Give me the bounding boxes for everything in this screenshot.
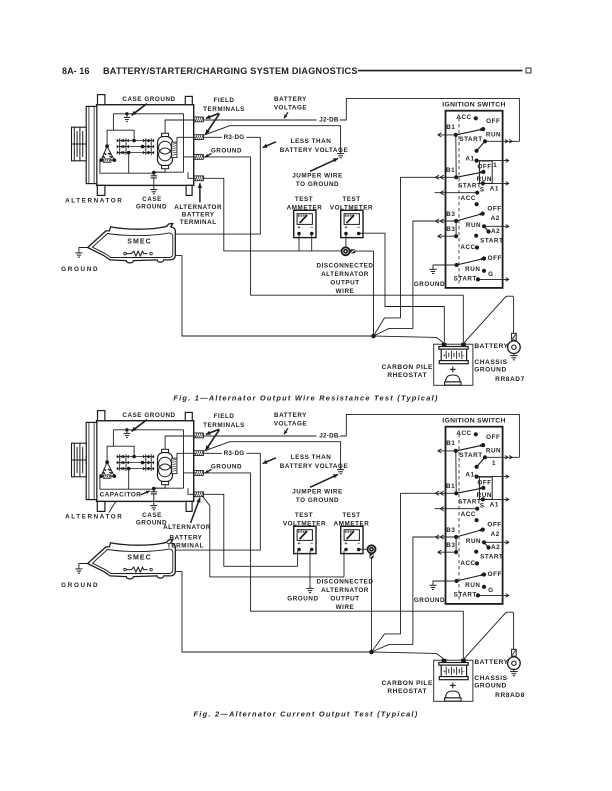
svg-text:TERMINALS: TERMINALS (203, 106, 245, 113)
chassis ground connector and eyelet (512, 333, 517, 340)
wire battery stud internal stub (188, 488, 196, 494)
alternator mounting tab bottom-left (97, 185, 105, 195)
svg-text:TEST: TEST (342, 512, 360, 519)
chassis ground symbol (513, 670, 515, 672)
test voltmeter M1 (294, 526, 316, 553)
svg-text:TEST: TEST (295, 512, 313, 519)
svg-text:BATTERY VOLTAGE: BATTERY VOLTAGE (280, 147, 348, 154)
jumper ground symbol (337, 153, 344, 155)
svg-text:TERMINALS: TERMINALS (203, 422, 245, 429)
svg-text:GROUND: GROUND (414, 597, 445, 604)
svg-text:R3-DG: R3-DG (224, 450, 245, 457)
wire S4 pivot to ground (433, 265, 457, 269)
wire voltmeter - to ground (309, 551, 311, 588)
rotor bottom brush tab (162, 482, 169, 485)
field terminal F2 connector (194, 135, 204, 140)
svg-text:Fig. 2—Alternator Current Outp: Fig. 2—Alternator Current Output Test (T… (194, 710, 419, 719)
delta terminal block (103, 159, 111, 162)
rotor field winding (158, 137, 173, 166)
capacitor C1 (153, 489, 155, 492)
rotor top brush tab (162, 449, 169, 452)
svg-text:FIELD: FIELD (214, 413, 235, 420)
svg-text:RR8AD7: RR8AD7 (495, 376, 525, 383)
svg-text:ACC: ACC (456, 114, 471, 121)
svg-text:BATTERY: BATTERY (170, 535, 203, 542)
svg-text:ALTERNATOR: ALTERNATOR (321, 271, 369, 278)
delta terminal block (103, 475, 111, 478)
ignition switch dashed section divider (458, 434, 460, 602)
battery BT1 left post (+) (442, 659, 447, 663)
svg-text:−: − (357, 541, 360, 547)
S1 B1 stub arrow left (438, 450, 456, 452)
svg-text:CHASSIS: CHASSIS (474, 675, 507, 682)
svg-text:START: START (480, 554, 503, 561)
svg-text:TERMINAL: TERMINAL (167, 543, 204, 550)
S3 contact A2 (486, 545, 490, 549)
rectifier diode bridge rails (119, 454, 121, 471)
label ALTERNATOR pointer arrow (109, 502, 116, 513)
alternator pulley (72, 127, 87, 161)
svg-text:A2: A2 (491, 215, 500, 222)
S1 blade B1-OFF (456, 129, 483, 135)
svg-text:RHEOSTAT: RHEOSTAT (387, 688, 427, 695)
wire B3 feed to junction (374, 221, 457, 336)
wire alternator battery terminal to voltmeter + (203, 494, 297, 566)
test ammeter M2 (341, 526, 363, 553)
alternator outer case (97, 105, 194, 186)
svg-text:B3: B3 (446, 226, 455, 233)
svg-text:8A- 16: 8A- 16 (62, 66, 89, 76)
svg-text:−: − (310, 541, 313, 547)
svg-text:CASE: CASE (142, 196, 162, 203)
svg-text:TEST: TEST (295, 196, 313, 203)
chassis ground connector and eyelet (512, 649, 517, 656)
battery BT1 top plate (439, 663, 468, 666)
wire internal top rail to case ground (113, 429, 183, 431)
ignition switch ground symbol (430, 584, 437, 586)
wire top rail left drop (113, 430, 134, 457)
stator delta winding (101, 462, 114, 476)
svg-text:OUTPUT: OUTPUT (330, 280, 359, 287)
SMEC internal resistor (125, 567, 148, 572)
svg-text:S: S (480, 186, 485, 193)
svg-text:RUN: RUN (465, 582, 480, 589)
ignition switch box (446, 427, 503, 604)
S3 blade RUN-A2 (484, 226, 489, 231)
chassis ground symbol (513, 354, 515, 356)
S3 blade B3-OFF (456, 214, 483, 221)
S4 pivot contact with blade to OFF (455, 263, 459, 267)
battery BT1 body with cells (441, 665, 466, 677)
battery terminal connector (194, 176, 204, 181)
alternator mounting tab top-right (185, 96, 192, 104)
svg-text:−: − (357, 225, 360, 231)
svg-text:TO GROUND: TO GROUND (296, 181, 339, 188)
junction node (371, 334, 376, 339)
wire jumper from field terminal F2 to ground (204, 126, 341, 154)
S1 contact START (475, 149, 479, 153)
disconnected alternator output wire connector (368, 545, 376, 553)
wire B1 link S1-S2 (455, 135, 457, 177)
wire jumper from field terminal F2 to ground (204, 442, 341, 470)
svg-text:A1: A1 (490, 502, 499, 509)
header end square (526, 68, 531, 73)
svg-text:LESS THAN: LESS THAN (291, 454, 332, 461)
wire B3 feed to junction (372, 537, 457, 652)
ignition switch ground symbol (430, 268, 437, 270)
svg-text:+: + (443, 353, 446, 358)
svg-text:B1: B1 (446, 483, 455, 490)
svg-text:START: START (454, 591, 477, 598)
battery BT1 bottom plate (439, 677, 468, 680)
field terminal F1 connector (194, 433, 204, 438)
jumper ground symbol (337, 469, 344, 471)
case ground dot (125, 112, 128, 115)
svg-text:RUN: RUN (486, 131, 501, 138)
svg-text:A1: A1 (465, 156, 474, 163)
case ground symbol top (126, 430, 128, 434)
rotor field winding (158, 453, 173, 482)
svg-text:−: − (462, 353, 465, 358)
svg-text:START: START (454, 275, 477, 282)
wire rotor bottom to capacitor node (154, 169, 165, 173)
capacitor node dot (152, 171, 156, 175)
alternator mounting tab top-right (185, 412, 192, 420)
S2 inner box (479, 161, 492, 183)
alternator rear end plate (86, 422, 97, 499)
svg-text:B1: B1 (446, 440, 455, 447)
svg-text:CASE: CASE (142, 512, 162, 519)
svg-text:JUMPER WIRE: JUMPER WIRE (292, 489, 342, 496)
SMEC module inner wall (93, 233, 173, 258)
svg-text:TERMINAL: TERMINAL (180, 219, 217, 226)
svg-text:OFF: OFF (487, 522, 501, 529)
diode row junction dots (132, 455, 136, 459)
carbon pile rheostat enclosure box (434, 660, 473, 701)
svg-text:ACC: ACC (460, 244, 475, 251)
svg-text:J2-DB: J2-DB (319, 433, 339, 440)
rectifier diode rows (117, 140, 155, 142)
wire case ground rail right drop (183, 430, 185, 488)
svg-text:ALTERNATOR: ALTERNATOR (321, 587, 369, 594)
wire case ground rail right drop (183, 114, 185, 172)
wire S4 pivot to ground (433, 581, 457, 585)
rotor part tag (172, 142, 177, 157)
header rule (358, 70, 523, 72)
wire ammeter + lead (298, 235, 300, 251)
svg-text:B1: B1 (446, 124, 455, 131)
wire ammeter - lead (311, 235, 313, 251)
case ground dot (125, 428, 128, 431)
svg-text:ALTERNATOR: ALTERNATOR (65, 198, 123, 205)
svg-text:RHEOSTAT: RHEOSTAT (387, 372, 427, 379)
svg-text:BATTERY: BATTERY (474, 343, 508, 350)
wire field terminal F2 internal (177, 137, 196, 142)
svg-text:GROUND: GROUND (287, 596, 318, 603)
carbon pile rheostat enclosure box (434, 344, 473, 385)
svg-text:RR8AD8: RR8AD8 (495, 692, 525, 699)
wire stator to bridge bottom (100, 160, 154, 173)
svg-text:TO GROUND: TO GROUND (296, 497, 339, 504)
svg-text:−: − (462, 669, 465, 674)
alternator pulley (72, 443, 87, 477)
svg-text:1: 1 (493, 162, 497, 169)
wire ground terminal internal stub (184, 472, 197, 474)
wire SMEC driver to junction (175, 572, 371, 652)
wire connector to junction (371, 558, 373, 652)
alternator mounting tab top-left (98, 411, 105, 421)
svg-text:OUTPUT: OUTPUT (330, 596, 359, 603)
svg-text:IGNITION SWITCH: IGNITION SWITCH (442, 418, 505, 425)
wire junction to battery positive post (374, 336, 444, 343)
wire J2-DB field terminal F1 to ignition switch RUN (203, 435, 316, 437)
svg-text:J2-DB: J2-DB (319, 117, 339, 124)
wire R3-DG field terminal F2 to SMEC (203, 452, 222, 454)
S2 blade B1-OFF (456, 172, 483, 177)
wire SMEC case to ground (79, 248, 88, 253)
wire SMEC driver to junction (175, 256, 373, 336)
svg-text:LESS THAN: LESS THAN (291, 138, 332, 145)
svg-text:VOLTAGE: VOLTAGE (274, 104, 307, 111)
svg-text:OFF: OFF (488, 255, 502, 262)
SMEC ground symbol (75, 252, 82, 254)
S1 B1 stub arrow left (438, 134, 456, 136)
svg-text:GROUND: GROUND (61, 266, 99, 273)
svg-text:RUN: RUN (465, 266, 480, 273)
wire field terminal F2 internal (177, 453, 196, 458)
carbon pile rheostat bell (446, 375, 460, 382)
wire field terminal F1 to rotor top (165, 120, 196, 133)
alternator shaft (71, 143, 86, 145)
ground terminal connector (194, 155, 204, 160)
wire ammeter - to connector (358, 548, 367, 550)
svg-text:IGNITION SWITCH: IGNITION SWITCH (442, 102, 505, 109)
svg-text:TEST: TEST (342, 196, 360, 203)
svg-text:+: + (443, 669, 446, 674)
stator delta winding (101, 146, 114, 160)
SMEC ground symbol (75, 568, 82, 570)
battery BT1 bottom plate (439, 361, 468, 364)
rheostat plus mark (450, 684, 456, 686)
svg-text:ACC: ACC (460, 560, 475, 567)
svg-text:GROUND: GROUND (414, 281, 445, 288)
diodes D1-D6 (triangle pairs) (117, 139, 120, 143)
wire rotor bottom to capacitor node (154, 485, 165, 489)
S1 blade RUN-START (477, 457, 485, 467)
svg-text:+: + (297, 225, 300, 231)
wire B1 link S1-S2 (455, 451, 457, 493)
svg-text:−: − (310, 225, 313, 231)
wire stator to bridge bottom (100, 476, 154, 489)
S2 blade B1-OFF (456, 488, 483, 493)
rectifier diode bridge rails (119, 138, 121, 155)
svg-text:1: 1 (492, 460, 496, 467)
svg-text:A2: A2 (491, 228, 500, 235)
wire B1 feed to junction (372, 493, 457, 652)
ground terminal connector (194, 471, 204, 476)
svg-text:DISCONNECTED: DISCONNECTED (317, 579, 374, 586)
svg-text:Fig. 1—Alternator Output Wire: Fig. 1—Alternator Output Wire Resistance… (173, 394, 438, 403)
svg-text:ALTERNATOR: ALTERNATOR (174, 204, 222, 211)
field terminal F1 connector (194, 117, 204, 122)
wire alternator battery terminal to ammeter + (202, 496, 344, 577)
alternator mounting tab bottom-left (97, 501, 105, 511)
S3 contact START (474, 550, 478, 554)
wire battery stud internal stub (188, 172, 196, 178)
battery BT1 right post (-) (461, 659, 466, 663)
svg-text:ALTERNATOR: ALTERNATOR (65, 514, 123, 521)
carbon pile rheostat bell (446, 691, 460, 698)
svg-text:FIELD: FIELD (214, 97, 235, 104)
rotor top brush tab (162, 133, 169, 136)
svg-text:START: START (458, 182, 481, 189)
svg-text:+: + (344, 541, 347, 547)
svg-text:BATTERY VOLTAGE: BATTERY VOLTAGE (280, 463, 348, 470)
svg-text:OFF: OFF (488, 571, 502, 578)
rectifier diode rows (117, 456, 155, 458)
wire junction to battery positive post (372, 652, 444, 659)
wire alternator battery terminal to ammeter and connector (203, 178, 341, 251)
case ground symbol bottom (150, 505, 157, 507)
svg-text:CARBON PILE: CARBON PILE (381, 364, 433, 371)
svg-text:OFF: OFF (486, 434, 500, 441)
svg-text:ACC: ACC (461, 511, 476, 518)
wire top rail left drop (113, 114, 134, 141)
field terminal F2 connector (194, 451, 204, 456)
svg-text:+: + (297, 541, 300, 547)
svg-text:A2: A2 (491, 544, 500, 551)
svg-text:GROUND: GROUND (211, 148, 242, 155)
capacitor C1 (153, 173, 155, 176)
svg-text:GROUND: GROUND (136, 204, 167, 211)
voltmeter ground symbol (306, 587, 313, 589)
case ground symbol top (126, 114, 128, 118)
wire ground terminal internal stub (184, 156, 197, 158)
alternator mounting tab bottom-right (186, 185, 192, 195)
wire J2-DB field terminal F1 to ignition switch RUN (203, 119, 316, 121)
svg-text:S: S (480, 502, 485, 509)
svg-text:DISCONNECTED: DISCONNECTED (317, 263, 374, 270)
svg-text:START: START (458, 498, 481, 505)
rheostat plus mark (450, 368, 456, 370)
battery BT1 body with cells (441, 349, 466, 361)
svg-text:BATTERY: BATTERY (274, 96, 307, 103)
svg-text:OFF: OFF (487, 206, 501, 213)
diodes D1-D6 (triangle pairs) (117, 455, 120, 459)
svg-text:OFF: OFF (477, 480, 491, 487)
svg-text:BATTERY: BATTERY (474, 659, 508, 666)
wire field terminal F1 to rotor top (165, 436, 196, 449)
svg-text:SMEC: SMEC (127, 239, 152, 246)
svg-text:BATTERY: BATTERY (182, 212, 215, 219)
svg-text:START: START (480, 238, 503, 245)
svg-text:VOLTAGE: VOLTAGE (274, 420, 307, 427)
wire connector to junction (354, 251, 373, 336)
S1 blade B1-OFF (456, 445, 483, 451)
alternator shaft (71, 459, 86, 461)
diode row junction dots (132, 139, 136, 143)
S3 contact START (474, 234, 478, 238)
SMEC internal resistor (125, 251, 148, 256)
svg-text:G: G (488, 271, 493, 278)
S1 contact START (475, 465, 479, 469)
svg-text:RUN: RUN (466, 222, 481, 229)
ignition switch dashed section divider (458, 118, 460, 286)
svg-text:A2: A2 (491, 531, 500, 538)
svg-text:BATTERY/STARTER/CHARGING SYSTE: BATTERY/STARTER/CHARGING SYSTEM DIAGNOST… (103, 66, 358, 76)
svg-text:JUMPER WIRE: JUMPER WIRE (292, 173, 342, 180)
wire R3-DG field terminal F2 to SMEC (203, 136, 222, 138)
svg-text:R3-DG: R3-DG (224, 134, 245, 141)
S3 blade B3-OFF (456, 530, 483, 537)
svg-text:CASE GROUND: CASE GROUND (122, 412, 175, 419)
test ammeter M1 (294, 210, 316, 237)
wire SMEC case to ground (79, 564, 88, 569)
svg-text:B1: B1 (446, 167, 455, 174)
svg-text:SMEC: SMEC (127, 555, 152, 562)
S2 inner box (479, 477, 492, 499)
svg-text:GROUND: GROUND (61, 582, 99, 589)
SMEC module inner wall (93, 549, 173, 574)
junction node (369, 650, 374, 655)
svg-text:START: START (459, 452, 482, 459)
svg-text:B3: B3 (446, 211, 455, 218)
rotor part tag (172, 458, 177, 473)
svg-text:OFF: OFF (477, 164, 491, 171)
svg-text:ACC: ACC (461, 195, 476, 202)
battery BT1 right post (-) (461, 343, 466, 347)
battery terminal connector (194, 492, 204, 497)
svg-text:A1: A1 (465, 472, 474, 479)
wire B1 feed to junction (374, 177, 457, 336)
svg-text:CARBON PILE: CARBON PILE (381, 680, 433, 687)
svg-text:WIRE: WIRE (336, 288, 355, 295)
wire battery negative post to chassis ground eyelet (464, 612, 514, 659)
svg-text:B3: B3 (446, 542, 455, 549)
wire delta top feed (107, 130, 113, 146)
svg-text:B3: B3 (446, 527, 455, 534)
capacitor node dot (152, 487, 156, 491)
wire internal top rail to case ground (113, 113, 183, 115)
wire voltmeter + to connector (345, 235, 347, 247)
svg-text:GROUND: GROUND (211, 464, 242, 471)
battery BT1 top plate (439, 347, 468, 350)
wire delta top feed (107, 446, 113, 462)
svg-text:START: START (459, 136, 482, 143)
wire battery negative post to chassis ground eyelet (464, 296, 514, 343)
svg-text:CHASSIS: CHASSIS (474, 359, 507, 366)
test voltmeter M2 (341, 210, 363, 237)
wire ground terminal to battery negative post (203, 157, 463, 343)
alternator mounting tab top-left (98, 95, 105, 105)
svg-text:OFF: OFF (486, 118, 500, 125)
disconnected alternator output wire connector (342, 247, 350, 255)
alternator outer case (97, 421, 194, 502)
svg-text:A1: A1 (490, 186, 499, 193)
rotor bottom brush tab (162, 166, 169, 169)
svg-text:+: + (344, 225, 347, 231)
svg-text:RUN: RUN (466, 538, 481, 545)
wire voltmeter - to battery positive (358, 233, 444, 343)
svg-text:CASE GROUND: CASE GROUND (122, 96, 175, 103)
battery BT1 left post (+) (442, 343, 447, 347)
svg-text:CAPACITOR: CAPACITOR (100, 491, 142, 498)
S1 blade RUN-START (477, 141, 485, 151)
svg-text:ALTERNATOR: ALTERNATOR (163, 524, 211, 531)
svg-text:ACC: ACC (456, 430, 471, 437)
svg-text:GROUND: GROUND (474, 683, 507, 690)
S4 pivot contact with blade to OFF (455, 579, 459, 583)
